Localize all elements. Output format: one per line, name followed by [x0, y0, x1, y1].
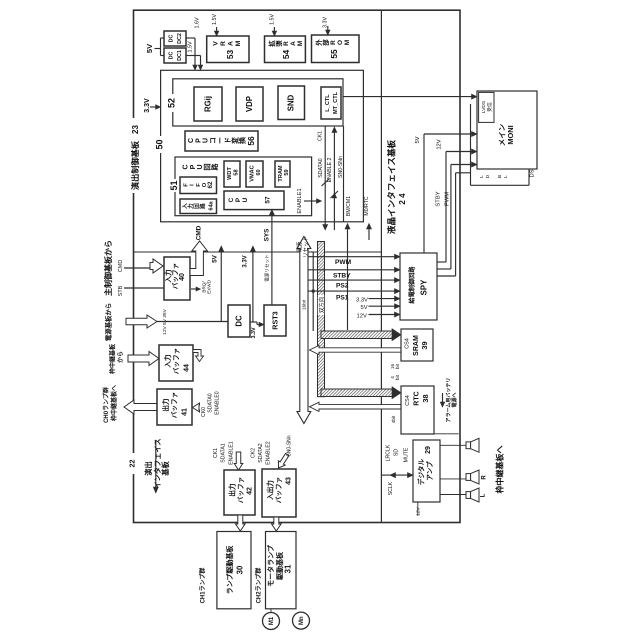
- svg-text:ー: ー: [218, 137, 225, 144]
- svg-text:22: 22: [127, 460, 136, 468]
- svg-text:電源へ: 電源へ: [451, 392, 458, 407]
- svg-text:F: F: [196, 183, 202, 187]
- RGij: [194, 87, 222, 121]
- board 30: [217, 532, 251, 609]
- speaker R: [466, 474, 471, 481]
- svg-text:M: M: [344, 40, 351, 45]
- svg-text:CK1: CK1: [317, 131, 323, 141]
- hatched branch to RTC: [321, 389, 393, 397]
- svg-text:M1: M1: [269, 616, 275, 625]
- svg-text:CMD: CMD: [196, 225, 203, 240]
- svg-text:38: 38: [421, 394, 430, 402]
- svg-text:入力: 入力: [164, 269, 173, 283]
- svg-text:張: 張: [274, 40, 283, 47]
- svg-text:44: 44: [183, 364, 190, 372]
- svg-text:演出: 演出: [144, 461, 153, 475]
- PWM wire: [308, 256, 397, 258]
- svg-text:PS1: PS1: [336, 295, 349, 302]
- amp 29: [413, 440, 440, 502]
- block 50: [161, 70, 364, 222]
- svg-text:駆動基板: 駆動基板: [275, 551, 284, 581]
- svg-text:1.5V: 1.5V: [212, 14, 218, 25]
- svg-text:SCLK: SCLK: [388, 481, 394, 495]
- svg-text:R: R: [283, 41, 290, 46]
- svg-text:O: O: [337, 40, 344, 45]
- hollow arrow buffer42 to board30: [236, 515, 246, 531]
- svg-text:1.6V: 1.6V: [194, 17, 200, 28]
- svg-text:電源基板から: 電源基板から: [104, 303, 113, 341]
- svg-text:39: 39: [420, 341, 429, 349]
- svg-text:3.3V: 3.3V: [243, 255, 249, 267]
- svg-text:ENABLE2: ENABLE2: [265, 441, 271, 464]
- svg-text:主制御基板から: 主制御基板から: [103, 240, 113, 296]
- svg-text:部: 部: [321, 39, 330, 46]
- svg-text:CS4: CS4: [404, 338, 410, 349]
- svg-text:29: 29: [425, 446, 432, 454]
- svg-text:入力: 入力: [163, 354, 172, 368]
- svg-text:SDATA0: SDATA0: [318, 158, 324, 178]
- BRQ arrow + label: [191, 288, 197, 290]
- RTC 38: [401, 386, 434, 434]
- svg-text:5V: 5V: [415, 136, 421, 143]
- svg-text:ENABLE 2: ENABLE 2: [327, 157, 333, 182]
- svg-text:受信: 受信: [486, 102, 493, 112]
- svg-text:MONI: MONI: [506, 125, 515, 144]
- 12V wire to MONI: [437, 261, 446, 263]
- svg-text:52: 52: [167, 98, 177, 108]
- svg-text:3.3V: 3.3V: [322, 17, 328, 28]
- svg-text:枠中継基板へ: 枠中継基板へ: [110, 385, 118, 421]
- svg-text:51: 51: [169, 180, 179, 190]
- svg-text:1.5V: 1.5V: [270, 14, 276, 25]
- wire RTC bottom to board edge: [434, 433, 459, 435]
- svg-text:SN0-SNn: SN0-SNn: [338, 156, 344, 178]
- svg-text:DC: DC: [168, 52, 174, 60]
- svg-text:42: 42: [246, 487, 253, 495]
- svg-text:SRAM: SRAM: [413, 335, 420, 356]
- SYS wire: [271, 212, 273, 305]
- buffer 40: [164, 257, 190, 300]
- svg-text:31: 31: [284, 564, 293, 573]
- main MONI: [477, 91, 537, 169]
- svg-text:CK1: CK1: [213, 448, 219, 458]
- DC to RST3 wire 3.3V: [250, 321, 257, 323]
- 12V wire: [369, 314, 397, 316]
- DC: [228, 305, 250, 337]
- speaker wires: [440, 444, 466, 446]
- hollow branch RTC to bus: [310, 402, 402, 411]
- svg-text:CK2: CK2: [250, 448, 256, 458]
- hollow arrow into buffer40: [150, 259, 163, 273]
- wire BM/CM1 up into block50: [347, 226, 349, 240]
- svg-text:L: L: [503, 175, 509, 178]
- svg-text:DC: DC: [168, 35, 174, 43]
- svg-text:R: R: [482, 475, 488, 480]
- STBY wire to MONI: [437, 268, 451, 270]
- wire M0/RTC up into block50: [368, 226, 370, 240]
- 5V riser: [220, 249, 222, 322]
- svg-text:5V: 5V: [145, 44, 154, 53]
- svg-text:ランプ駆動基板: ランプ駆動基板: [225, 545, 234, 595]
- buffer 44: [159, 345, 193, 381]
- svg-text:RST3: RST3: [270, 311, 279, 329]
- svg-text:バッファ: バッファ: [171, 392, 179, 418]
- svg-text:3.3V: 3.3V: [144, 98, 151, 113]
- svg-text:ENABLE0: ENABLE0: [214, 391, 220, 414]
- CPU 57: [224, 191, 284, 210]
- WDT 58: [224, 161, 240, 187]
- svg-text:DS: DS: [530, 169, 536, 177]
- 12V 5V 35V power wire: [126, 315, 157, 328]
- svg-text:バッファ: バッファ: [173, 348, 181, 374]
- svg-text:枠中継基板へ: 枠中継基板へ: [495, 446, 505, 495]
- hollow data bus (vertical, double arrow): [297, 237, 311, 424]
- svg-text:CS4: CS4: [405, 395, 411, 406]
- svg-text:回: 回: [203, 164, 212, 171]
- svg-text:RGij: RGij: [204, 96, 213, 112]
- svg-text:外: 外: [314, 39, 323, 46]
- svg-text:D: D: [485, 174, 491, 178]
- svg-text:双方向: 双方向: [317, 297, 325, 313]
- hollow arrow out of buffer41: [124, 400, 157, 414]
- svg-text:Mn: Mn: [299, 616, 305, 625]
- svg-text:基板: 基板: [161, 461, 170, 477]
- svg-text:STBY: STBY: [436, 191, 442, 206]
- buffer 41: [157, 389, 192, 425]
- bus width ticks: [322, 179, 330, 186]
- wire below buffer41: [155, 440, 157, 487]
- motor M1: [270, 609, 272, 613]
- svg-text:力: 力: [186, 203, 194, 209]
- svg-text:枠中継基板: 枠中継基板: [109, 343, 117, 374]
- svg-text:bit: bit: [395, 374, 400, 380]
- VMAC 60: [246, 161, 263, 187]
- hollow arrow buffer43 to board31: [272, 517, 282, 531]
- DC/DC output wires into block 50: [186, 37, 195, 39]
- CMD hollow arrow up: [190, 241, 207, 276]
- svg-text:路: 路: [210, 163, 219, 171]
- svg-text:SPY: SPY: [420, 279, 429, 295]
- board 31: [266, 532, 297, 609]
- svg-text:C: C: [228, 197, 235, 202]
- svg-text:1.5V: 1.5V: [187, 41, 193, 52]
- svg-text:STB: STB: [118, 285, 124, 296]
- VDP: [236, 87, 263, 121]
- 5V wire: [369, 305, 397, 307]
- PWM wire to MONI bottom (DS): [437, 275, 456, 277]
- svg-text:43: 43: [285, 477, 292, 485]
- FIFO 62: [180, 177, 217, 194]
- PS2 wire: [308, 279, 397, 281]
- hollow arrow into buffer44: [128, 352, 159, 366]
- speaker (top): [466, 442, 471, 449]
- svg-text:PWM: PWM: [335, 259, 352, 266]
- svg-text:VDP: VDP: [245, 96, 254, 112]
- TRAM 59: [275, 161, 290, 187]
- video wire into MONI: [343, 96, 473, 98]
- hollow arrow SN0-SNn into buffer43: [275, 452, 290, 470]
- hatched address bus vertical: [318, 242, 325, 397]
- svg-text:C: C: [188, 138, 195, 143]
- svg-text:M: M: [297, 41, 304, 46]
- label 演出インタフェイス基板 22: [128, 453, 137, 474]
- 5V wire to MONI: [423, 134, 425, 253]
- buffer 42: [224, 470, 255, 515]
- svg-text:WDT: WDT: [227, 167, 233, 180]
- svg-text:LRCLK: LRCLK: [385, 444, 391, 461]
- svg-text:入出力: 入出力: [266, 480, 275, 500]
- small bent arrow at buffer44: [193, 350, 204, 362]
- svg-text:入: 入: [181, 203, 188, 210]
- 12V into amp: [417, 502, 419, 516]
- svg-text:A: A: [290, 41, 297, 46]
- wire CK1/SDATA0 down: [324, 126, 326, 226]
- svg-text:拡: 拡: [267, 40, 276, 47]
- svg-text:SDATA2: SDATA2: [258, 443, 264, 463]
- LVDS: [479, 92, 494, 122]
- label 双方向 on hatched bus: [318, 295, 324, 315]
- svg-text:STBY: STBY: [333, 272, 351, 279]
- block 51: [175, 157, 312, 216]
- svg-text:CMD: CMD: [118, 260, 124, 272]
- svg-text:ド: ド: [224, 137, 232, 144]
- svg-text:演出制御基板: 演出制御基板: [130, 140, 140, 190]
- board 24 液晶インタフェイス基板 left edge: [380, 10, 382, 522]
- svg-text:SN0-SNn: SN0-SNn: [287, 435, 293, 456]
- svg-text:アンプ: アンプ: [425, 461, 434, 481]
- svg-text:12V: 12V: [416, 506, 422, 515]
- svg-text:P: P: [235, 197, 242, 202]
- svg-text:SDATA0: SDATA0: [207, 393, 213, 413]
- 5V rail wire: [155, 48, 161, 50]
- svg-text:53: 53: [225, 50, 235, 60]
- svg-text:路: 路: [198, 203, 206, 209]
- svg-text:RTC: RTC: [413, 391, 420, 405]
- svg-text:変: 変: [230, 137, 239, 144]
- svg-text:アラーム用バッテリ: アラーム用バッテリ: [445, 378, 452, 423]
- svg-text:41: 41: [181, 408, 188, 416]
- svg-text:12V: 12V: [357, 314, 367, 320]
- block 52: [173, 79, 343, 126]
- svg-text:56: 56: [246, 136, 256, 146]
- RTC alarm output arrow + label: [442, 393, 444, 403]
- label 演出制御基板 23: [129, 118, 140, 193]
- wire ENABLE2 up: [333, 130, 335, 230]
- svg-text:ENABLE1: ENABLE1: [228, 441, 234, 464]
- svg-text:モータランプ: モータランプ: [266, 544, 275, 587]
- svg-text:PS2: PS2: [336, 283, 349, 290]
- board 23/22 outer: [134, 10, 461, 522]
- SRAM 39: [401, 329, 433, 361]
- L_CTL/MT_CTL: [321, 87, 341, 119]
- VRAM 53: [207, 36, 249, 63]
- svg-text:5V: 5V: [361, 305, 368, 311]
- svg-text:L: L: [479, 175, 485, 178]
- svg-text:50: 50: [155, 139, 165, 149]
- svg-text:60: 60: [256, 169, 262, 175]
- motor Mn: [293, 612, 310, 629]
- svg-text:ENABLE1: ENABLE1: [297, 188, 303, 213]
- svg-text:CK0: CK0: [201, 407, 207, 417]
- svg-text:R: R: [220, 41, 227, 46]
- svg-text:から: から: [117, 351, 125, 363]
- svg-text:2 4: 2 4: [398, 193, 407, 205]
- svg-text:液晶インタフェイス基板: 液晶インタフェイス基板: [385, 139, 396, 234]
- svg-text:5V: 5V: [212, 254, 219, 263]
- svg-text:M0/RTC: M0/RTC: [364, 196, 370, 215]
- wire between buses: [312, 252, 314, 331]
- board divider line between 23 and 22: [134, 251, 382, 253]
- svg-text:DC2: DC2: [177, 33, 183, 44]
- STBY wire: [308, 269, 397, 271]
- small hollow arrow into buffer42 top: [234, 452, 243, 470]
- svg-text:L_CTL: L_CTL: [325, 94, 331, 112]
- svg-text:LVDS: LVDS: [481, 101, 487, 113]
- wire SN0-SNn: [343, 126, 345, 222]
- svg-text:電源: 電源: [295, 241, 303, 252]
- PS1 wire: [308, 290, 397, 292]
- svg-text:CH0ランプ群: CH0ランプ群: [102, 387, 110, 423]
- 1.5V wire into VRAM53: [216, 27, 218, 33]
- 56: [185, 131, 258, 151]
- 3.3V wire into ROM55: [327, 26, 329, 32]
- svg-text:電源リセット: 電源リセット: [263, 254, 270, 282]
- svg-text:40: 40: [179, 273, 186, 281]
- svg-text:A: A: [228, 41, 235, 46]
- svg-text:出力: 出力: [161, 398, 170, 412]
- svg-text:リセット: リセット: [302, 236, 309, 258]
- svg-text:30: 30: [236, 565, 245, 574]
- svg-text:デジタル: デジタル: [417, 458, 426, 485]
- svg-text:バッファ: バッファ: [237, 477, 245, 503]
- svg-text:U: U: [197, 164, 204, 169]
- svg-text:R: R: [330, 40, 337, 45]
- svg-text:16bit: 16bit: [302, 299, 308, 310]
- speaker L: [466, 492, 471, 499]
- svg-text:C: C: [182, 164, 189, 169]
- 3.3V riser: [252, 249, 254, 322]
- svg-text:SND: SND: [287, 94, 296, 111]
- svg-text:62: 62: [207, 181, 214, 188]
- svg-text:V: V: [212, 41, 219, 46]
- svg-text:58: 58: [233, 169, 239, 175]
- svg-text:4bit: 4bit: [391, 415, 396, 423]
- svg-text:U: U: [203, 138, 210, 143]
- hatched branch to SRAM: [321, 331, 393, 339]
- audio bus double arrow: [387, 474, 413, 476]
- SPY: [400, 253, 437, 320]
- svg-text:コ: コ: [209, 137, 217, 144]
- svg-text:12V: 12V: [437, 139, 443, 149]
- svg-text:M: M: [235, 40, 242, 46]
- buffer 43: [262, 469, 296, 517]
- svg-text:F: F: [184, 183, 190, 187]
- small hollow arrow into buffer41 right: [193, 403, 200, 412]
- svg-text:P: P: [195, 138, 202, 143]
- svg-text:54: 54: [281, 50, 291, 60]
- svg-text:SYS: SYS: [264, 228, 271, 242]
- svg-text:BM/CM1: BM/CM1: [346, 196, 352, 216]
- SND: [278, 86, 305, 120]
- hollow branch SRAM to bus: [310, 345, 402, 354]
- svg-text:MUTE: MUTE: [403, 447, 409, 462]
- svg-text:CH1ランプ群: CH1ランプ群: [199, 568, 207, 604]
- svg-text:3.3V: 3.3V: [356, 298, 368, 304]
- svg-text:55: 55: [329, 49, 339, 59]
- svg-text:57: 57: [265, 196, 272, 204]
- RST3: [264, 305, 286, 336]
- svg-text:VMAC: VMAC: [249, 165, 255, 181]
- svg-text:SD: SD: [393, 449, 399, 456]
- svg-text:給電制御回路: 給電制御回路: [408, 266, 416, 304]
- 外部ROM 55: [312, 35, 360, 63]
- svg-text:バッファ: バッファ: [275, 477, 283, 503]
- DC/DC1: [164, 48, 186, 63]
- 64a: [180, 199, 217, 214]
- 1.5V wire into RAM54: [273, 27, 275, 33]
- svg-text:EXWD: EXWD: [207, 279, 212, 293]
- svg-text:bit: bit: [395, 363, 400, 369]
- svg-text:出力: 出力: [228, 483, 237, 497]
- 3.3V wire: [369, 298, 397, 300]
- DC/DC2: [164, 31, 186, 46]
- svg-text:3.3V: 3.3V: [251, 327, 257, 338]
- RAM 54: [265, 36, 306, 63]
- svg-text:59: 59: [284, 169, 290, 175]
- svg-text:CH2ランプ群: CH2ランプ群: [255, 568, 263, 604]
- svg-text:回: 回: [192, 203, 200, 209]
- svg-text:P: P: [190, 164, 197, 169]
- svg-text:64a: 64a: [208, 200, 214, 210]
- svg-text:MT_CTL: MT_CTL: [333, 91, 339, 114]
- svg-text:23: 23: [131, 125, 140, 134]
- svg-text:U: U: [242, 197, 249, 202]
- svg-text:DC: DC: [235, 315, 244, 327]
- svg-text:L: L: [481, 493, 487, 497]
- svg-text:SDATA1: SDATA1: [220, 443, 226, 463]
- svg-text:B: B: [497, 175, 503, 178]
- svg-text:DC1: DC1: [177, 50, 183, 61]
- svg-text:PWM: PWM: [445, 192, 451, 206]
